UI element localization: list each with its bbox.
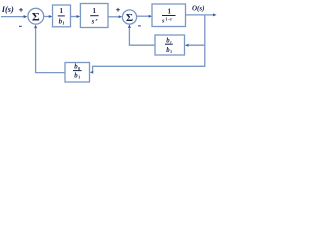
svg-text:0: 0 xyxy=(78,66,80,71)
block 1/s^r xyxy=(80,4,108,28)
svg-text:1: 1 xyxy=(92,7,96,15)
wire tap to block Bf2 (bottom feedback, jog at right of block) xyxy=(90,66,205,73)
minus sign at S2 xyxy=(138,25,141,27)
wire S2 to block B3 xyxy=(137,15,153,18)
svg-text:Σ: Σ xyxy=(126,12,133,24)
wire B2 to S2 xyxy=(108,15,122,18)
wire tap to block Bf1 (middle feedback) xyxy=(185,44,205,47)
svg-text:1: 1 xyxy=(170,49,172,54)
summing junction S2 xyxy=(122,10,136,24)
svg-text:O(s): O(s) xyxy=(192,5,204,13)
svg-text:1: 1 xyxy=(59,7,63,15)
wire S1 to block B1 xyxy=(44,15,53,18)
svg-text:s: s xyxy=(91,18,95,26)
minus sign at S1 xyxy=(19,25,22,27)
svg-text:Σ: Σ xyxy=(32,10,40,24)
svg-text:1: 1 xyxy=(78,74,80,79)
svg-text:I(s): I(s) xyxy=(1,5,14,14)
block 1/s^(1-r) xyxy=(152,4,186,27)
wire output with arrow xyxy=(186,13,217,16)
wire output tap vertical xyxy=(204,15,206,67)
plus sign at summing junction S2 xyxy=(116,8,120,12)
plus sign at summing junction S1 xyxy=(19,8,23,12)
block b0/b1 (bottom feedback) xyxy=(65,63,90,83)
wire Bf1 to S2 (left then up, arrow into S2) xyxy=(128,24,155,45)
block br/b1 (middle feedback) xyxy=(155,35,185,55)
svg-text:1−r: 1−r xyxy=(165,16,172,21)
wire Bf2 to S1 (left then up, arrow into S1) xyxy=(34,25,65,73)
block 1/b1 xyxy=(53,5,71,27)
wire input arrow xyxy=(1,15,27,18)
svg-text:1: 1 xyxy=(168,7,172,15)
svg-text:r: r xyxy=(96,17,98,22)
wire B1 to B2 xyxy=(71,15,81,18)
summing junction S1 xyxy=(28,8,44,24)
